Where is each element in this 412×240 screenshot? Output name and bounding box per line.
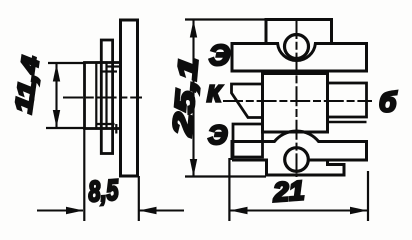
svg-text:б: б <box>379 87 397 118</box>
dim 8,5 left arrow <box>37 207 84 214</box>
svg-text:25,1: 25,1 <box>167 56 204 138</box>
pedestal edge lower <box>97 123 115 125</box>
svg-text:К: К <box>207 81 223 107</box>
horizontal center line <box>223 100 372 102</box>
svg-text:21: 21 <box>271 175 305 207</box>
lower mounting hole <box>285 148 309 172</box>
extension line flange back <box>138 176 140 221</box>
svg-text:11,4: 11,4 <box>10 55 45 115</box>
svg-text:Э: Э <box>208 120 227 150</box>
upper mounting hole <box>285 35 309 59</box>
body (front view) <box>263 74 328 133</box>
center line (side view) <box>63 97 142 99</box>
base side extra edge <box>328 121 367 123</box>
emitter lead lower <box>233 124 263 157</box>
vertical center line <box>296 19 298 177</box>
dim 8,5 right arrow <box>139 207 184 214</box>
lower ear root plate with boss dome <box>232 131 367 160</box>
collector lead K (bevelled) <box>232 84 263 118</box>
pedestal edge upper b <box>107 65 121 67</box>
upper ear end plate <box>266 20 332 44</box>
body (side view) <box>85 63 121 129</box>
base lead B <box>328 83 367 117</box>
pedestal edge upper a <box>101 70 117 72</box>
lower ear end plate <box>267 159 345 175</box>
dim 25,1 line with arrows <box>190 20 197 177</box>
svg-text:8,5: 8,5 <box>87 174 120 208</box>
cap (side view) <box>101 40 112 154</box>
flange (side view) <box>121 20 138 176</box>
upper ear root plate with boss notch <box>232 44 367 72</box>
21 left extension <box>228 158 230 221</box>
25,1 top extension line <box>185 18 266 20</box>
25,1 bottom extension line <box>185 175 266 177</box>
dim 21 line with arrows <box>230 207 368 214</box>
dim 11,4 extension bottom <box>46 127 84 129</box>
extension line body front face <box>83 128 85 221</box>
dim 11,4 extension top <box>48 62 84 64</box>
stub lower right <box>115 124 117 134</box>
svg-text:Э: Э <box>209 40 230 72</box>
21 right extension <box>367 171 369 221</box>
dim 11,4 line with arrows <box>53 64 60 128</box>
inner insulator (side view) <box>96 63 106 129</box>
